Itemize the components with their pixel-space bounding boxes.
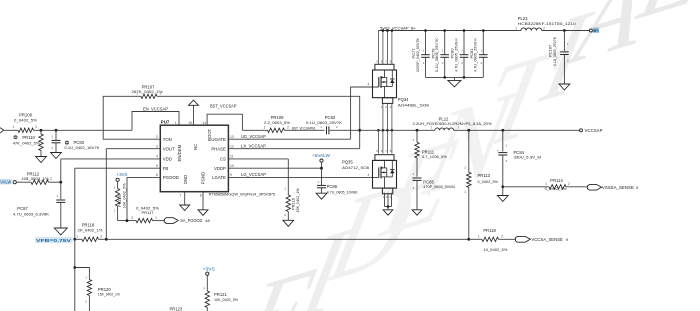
wire BST_VCCSAP — [207, 114, 242, 130]
svg-text:4.7_1206_5%: 4.7_1206_5% — [422, 154, 447, 159]
svg-text:14: 14 — [202, 121, 206, 125]
svg-text:2200P_0402_50V7K: 2200P_0402_50V7K — [415, 38, 420, 72]
wire PQ34 source pins — [382, 103, 384, 130]
svg-text:1: 1 — [26, 177, 28, 181]
ground PC85 — [412, 210, 422, 215]
svg-text:UGATE: UGATE — [211, 137, 226, 142]
ground cap bank — [453, 77, 455, 80]
svg-text:1: 1 — [155, 216, 157, 220]
svg-text:GND: GND — [183, 175, 188, 185]
svg-text:0_0402_5%: 0_0402_5% — [478, 179, 499, 184]
svg-text:3: 3 — [156, 145, 158, 149]
svg-text:330U_6.3V_M: 330U_6.3V_M — [514, 154, 542, 159]
svg-text:15K_0402_1%: 15K_0402_1% — [98, 292, 120, 297]
wire LX rail — [360, 129, 435, 131]
svg-text:2.2_0603_5%: 2.2_0603_5% — [264, 120, 290, 125]
svg-text:RT6585BMGQW_WQFN14_3P5X3P5: RT6585BMGQW_WQFN14_3P5X3P5 — [209, 191, 276, 196]
svg-text:FB: FB — [163, 166, 169, 171]
connector VSSSA_SENSE — [588, 184, 602, 190]
svg-text:AO4712_SO8: AO4712_SO8 — [342, 165, 370, 170]
ground PC84 — [502, 187, 504, 196]
wire PGOOD — [127, 176, 160, 178]
svg-text:12: 12 — [230, 145, 234, 149]
junction PR110 — [40, 129, 43, 132]
wire FB lower — [74, 239, 76, 311]
input connector VRLW-EN — [0, 128, 4, 133]
svg-text:47K_0402_5%: 47K_0402_5% — [13, 140, 40, 145]
resistor PR107 — [141, 94, 157, 98]
svg-text:+3VS: +3VS — [203, 266, 215, 271]
no-connect arrow pin 15 — [193, 105, 195, 125]
junction PR120 branch — [73, 266, 76, 269]
junction PC84 — [501, 129, 504, 132]
svg-text:UG_VCCSAP: UG_VCCSAP — [241, 134, 266, 139]
wire PGOOD row — [118, 220, 131, 222]
svg-text:10K_0402_5%: 10K_0402_5% — [121, 183, 126, 209]
svg-text:0.1U_0402_16V7K: 0.1U_0402_16V7K — [64, 145, 99, 150]
wire EN_VCCSAP — [132, 112, 179, 131]
svg-text:15: 15 — [188, 121, 192, 125]
capacitor PC84 — [502, 130, 504, 151]
junction PHASE-LX — [358, 129, 361, 132]
junction LX pins — [377, 129, 380, 132]
wire VDD — [61, 158, 161, 160]
wire sense row — [106, 238, 469, 240]
svg-text:HCB3225KF-151T50_1210: HCB3225KF-151T50_1210 — [518, 21, 577, 26]
svg-text:VCCSAP: VCCSAP — [585, 128, 603, 133]
svg-text:4: 4 — [368, 173, 370, 177]
wire LG_VCCSAP — [228, 176, 378, 178]
junction PC84 gnd — [501, 185, 504, 188]
svg-text:2: 2 — [156, 135, 158, 139]
svg-text:PR114: PR114 — [550, 178, 563, 183]
svg-text:1: 1 — [136, 92, 138, 96]
svg-text:0_0402_5%: 0_0402_5% — [545, 186, 567, 191]
resistor PR110 — [40, 130, 42, 134]
svg-text:2: 2 — [458, 126, 460, 130]
ground PGND pin8 — [202, 192, 204, 210]
transistor PQ34 — [377, 31, 379, 65]
resistor PR111 snubber — [416, 129, 419, 132]
resistor PR115 — [117, 181, 119, 188]
svg-text:AO4468L_SO8: AO4468L_SO8 — [398, 102, 430, 107]
svg-text:PR123: PR123 — [170, 306, 183, 311]
junction PR113 — [467, 129, 470, 132]
junction PGOOD — [126, 219, 129, 222]
resistor PR116 — [287, 159, 289, 195]
svg-text:0.1U_0805_25V7K: 0.1U_0805_25V7K — [552, 37, 557, 66]
connector SA_PGOOD — [164, 218, 178, 224]
svg-text:15K_0402_1%: 15K_0402_1% — [295, 188, 300, 213]
resistor PR114 — [503, 186, 549, 188]
capacitor PC77 — [425, 31, 427, 55]
svg-text:PR119: PR119 — [483, 228, 496, 233]
svg-text:PGND: PGND — [201, 172, 206, 184]
svg-text:2: 2 — [287, 125, 289, 129]
svg-text:1: 1 — [515, 27, 517, 31]
junction FB row — [73, 238, 76, 241]
svg-text:EN_VCCSAP: EN_VCCSAP — [143, 106, 168, 111]
svg-text:2: 2 — [501, 234, 503, 238]
wire UG_VCCSAP — [228, 138, 350, 140]
capacitor PC78 — [444, 31, 446, 55]
svg-text:9: 9 — [230, 173, 232, 177]
svg-text:VSSSA_SENSE: VSSSA_SENSE — [602, 185, 634, 190]
capacitor PC83 — [55, 130, 57, 140]
net label B+ — [589, 29, 592, 32]
svg-text:PHASE: PHASE — [211, 146, 226, 151]
net label VFB — [35, 237, 73, 243]
junction PC83 — [55, 129, 58, 132]
svg-text:1: 1 — [545, 182, 547, 186]
svg-text:VDD: VDD — [163, 157, 172, 162]
resistor PR118 — [75, 238, 82, 240]
svg-text:7: 7 — [179, 194, 181, 198]
capacitor bank PC77 PC78 PC80 PC81 — [426, 76, 484, 78]
svg-text:11: 11 — [230, 155, 234, 159]
svg-text:10: 10 — [230, 164, 234, 168]
svg-text:2: 2 — [35, 125, 37, 129]
connector VCCSA_SENSE — [515, 236, 530, 242]
svg-text:VFB=0.75V: VFB=0.75V — [36, 238, 71, 243]
svg-text:LG_VCCSAP: LG_VCCSAP — [241, 172, 266, 177]
capacitor PC87 — [60, 182, 62, 199]
svg-text:BOOT: BOOT — [207, 128, 212, 141]
svg-text:VOUT: VOUT — [163, 146, 175, 151]
junction VOUT row — [105, 238, 108, 241]
svg-text:1: 1 — [13, 125, 15, 129]
junction VDD-PR112 — [59, 181, 62, 184]
svg-text:4.7U_0805_25V6-K: 4.7U_0805_25V6-K — [473, 38, 478, 72]
svg-text:LX_VCCSAP: LX_VCCSAP — [241, 143, 266, 148]
svg-text:PR117: PR117 — [142, 210, 155, 215]
ground PC187 — [559, 84, 570, 90]
svg-text:2.2UH_FDVE0630-H-2R2M=P3_8.3A_: 2.2UH_FDVE0630-H-2R2M=P3_8.3A_20% — [413, 121, 492, 126]
svg-text:470P_0603_50V6J: 470P_0603_50V6J — [423, 184, 455, 189]
svg-text:10K_0402_5%: 10K_0402_5% — [214, 297, 238, 302]
svg-text:NC: NC — [193, 144, 198, 150]
wire TON riser — [103, 96, 160, 139]
svg-text:5V03_VCCSAP_B+: 5V03_VCCSAP_B+ — [380, 26, 417, 31]
svg-text:VDDP: VDDP — [214, 166, 226, 171]
wire CS — [228, 158, 288, 160]
wire VOUT sense riser — [106, 148, 160, 150]
ground PC87 — [54, 228, 67, 235]
svg-text:PC86: PC86 — [327, 184, 338, 189]
ground PR116 — [283, 220, 294, 226]
capacitor PC187 — [563, 31, 565, 52]
junction PQ35 source — [387, 205, 390, 208]
svg-text:1: 1 — [431, 126, 433, 130]
wire LX_VCCSAP — [228, 148, 359, 150]
svg-text:2: 2 — [543, 27, 545, 31]
svg-text:1: 1 — [76, 234, 78, 238]
svg-text:PR113: PR113 — [478, 173, 491, 178]
svg-text:2: 2 — [131, 216, 133, 220]
svg-text:10_0402_5%: 10_0402_5% — [483, 247, 507, 252]
wire PR107 to LX node — [157, 96, 360, 130]
svg-text:2K_0402_1%: 2K_0402_1% — [78, 228, 103, 233]
junction VDDP — [320, 167, 323, 170]
svg-text:2: 2 — [568, 182, 570, 186]
svg-text:4.7U_0603_6.3V6K: 4.7U_0603_6.3V6K — [13, 211, 49, 216]
svg-text:+3VS: +3VS — [117, 172, 128, 177]
svg-text:4: 4 — [368, 83, 370, 87]
capacitor PC80 — [463, 31, 465, 55]
svg-text:BST_VCCSAP: BST_VCCSAP — [210, 103, 237, 108]
resistor PR108 — [18, 128, 34, 132]
wire FB riser — [75, 167, 161, 169]
svg-text:SA_PGOOD: SA_PGOOD — [180, 218, 202, 223]
svg-text:2: 2 — [160, 92, 162, 96]
svg-text:VCCSA_SENSE: VCCSA_SENSE — [531, 237, 563, 242]
svg-text:1: 1 — [264, 125, 266, 129]
svg-text:48: 48 — [205, 218, 210, 223]
capacitor PC85 — [413, 177, 422, 179]
op-amp U: IC PU7 RT6585B — [160, 125, 228, 192]
net label +5VALW left — [0, 179, 12, 184]
svg-text:8: 8 — [200, 194, 202, 198]
capacitor PC82 — [326, 126, 328, 134]
resistor PR112 — [16, 181, 31, 183]
svg-text:1: 1 — [478, 234, 480, 238]
junction PC187 — [563, 29, 566, 32]
ground PR110 — [36, 157, 47, 163]
svg-text:6: 6 — [156, 173, 158, 177]
svg-text:LGATE: LGATE — [212, 175, 226, 180]
resistor PR117 — [131, 220, 137, 222]
svg-text:4: 4 — [156, 155, 158, 159]
net label VCCSAP — [580, 129, 583, 132]
svg-text:0.1U_0805_25V7K: 0.1U_0805_25V7K — [434, 38, 439, 72]
svg-text:CS: CS — [220, 157, 226, 162]
wire B+ rail — [378, 30, 516, 32]
svg-text:0_0402_5%: 0_0402_5% — [14, 118, 37, 123]
svg-text:13: 13 — [230, 135, 234, 139]
ground PC86 — [316, 193, 327, 199]
resistor PR119 — [467, 238, 470, 241]
svg-text:VALW: VALW — [0, 180, 11, 185]
resistor PR121 — [206, 275, 208, 291]
svg-text:TON: TON — [163, 137, 172, 142]
svg-text:+5VALW: +5VALW — [312, 153, 330, 158]
svg-text:B+: B+ — [593, 28, 599, 33]
svg-text:5: 5 — [156, 164, 158, 168]
resistor PR120 — [75, 268, 90, 280]
svg-text:+: + — [497, 149, 499, 153]
svg-text:2: 2 — [50, 177, 52, 181]
resistor PR109 — [242, 129, 267, 131]
svg-text:1: 1 — [175, 121, 177, 125]
wire input row — [4, 129, 18, 131]
svg-text:BST_VCCSAPN1: BST_VCCSAPN1 — [292, 126, 316, 131]
svg-text:EN/DEM: EN/DEM — [177, 144, 182, 161]
svg-text:2: 2 — [100, 234, 102, 238]
capacitor PC86 — [321, 168, 323, 185]
ground PQ35 — [387, 207, 389, 210]
ground PC83 — [51, 153, 62, 159]
svg-text:PU7: PU7 — [161, 119, 170, 124]
ground GND pin7 — [184, 192, 186, 205]
svg-text:0.1U_0603_25V7K: 0.1U_0603_25V7K — [306, 120, 342, 125]
wire PQ35 source pins to ground — [384, 193, 386, 207]
svg-text:PGOOD: PGOOD — [163, 175, 179, 180]
power connector circle PR112 — [13, 181, 16, 184]
svg-text:4.7U_0805_10V6K: 4.7U_0805_10V6K — [327, 189, 358, 194]
wire VDDP — [228, 167, 321, 169]
svg-text:4.7U_0805_25V6-K: 4.7U_0805_25V6-K — [453, 38, 458, 72]
resistor PR113 — [468, 130, 470, 172]
capacitor PC81 — [482, 31, 484, 55]
